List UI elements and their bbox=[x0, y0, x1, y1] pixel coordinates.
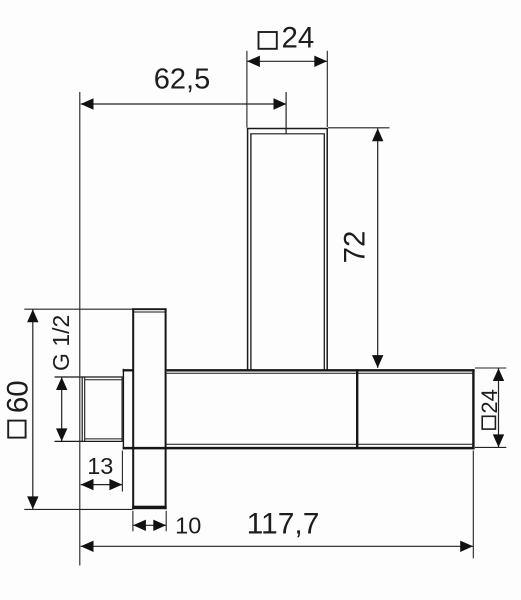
dimension 117,7: dimension line bbox=[81, 545, 473, 547]
dimension 72: dimension line bbox=[377, 128, 379, 368]
svg-text:13: 13 bbox=[87, 453, 113, 479]
dimension 10: dimension line bbox=[133, 524, 166, 526]
svg-text:117,7: 117,7 bbox=[247, 507, 320, 540]
dimension 117,7: right arrowhead bbox=[460, 541, 473, 552]
dimension sq60: extension lines bbox=[24, 309, 133, 509]
dimension sq60: dimension line bbox=[32, 309, 34, 509]
dimension sq24 right: square symbol (rotated) bbox=[482, 416, 495, 429]
svg-text:62,5: 62,5 bbox=[154, 64, 210, 96]
svg-text:60: 60 bbox=[2, 380, 35, 413]
dimension sq24 right: top arrowhead bbox=[493, 368, 504, 381]
dimension sq24 top: extension lines bbox=[247, 51, 327, 128]
svg-text:G 1/2: G 1/2 bbox=[48, 315, 74, 371]
dimension sq24 top: left arrowhead bbox=[247, 56, 260, 67]
dimension G 1/2: bottom arrowhead bbox=[56, 428, 67, 441]
svg-text:24: 24 bbox=[282, 22, 315, 55]
dimension sq24 right: dimension line bbox=[498, 368, 500, 447]
dimension 62,5: dimension line bbox=[81, 103, 287, 105]
dimension sq60: bottom arrowhead bbox=[27, 496, 38, 509]
dimension 13: right arrowhead bbox=[109, 479, 122, 490]
dimension 62,5: left arrowhead bbox=[81, 98, 94, 109]
riser pipe (vertical outlet tube) bbox=[247, 128, 328, 370]
dimension 13: right extension line bbox=[121, 451, 123, 492]
dimension G 1/2: dimension line bbox=[61, 377, 63, 441]
svg-text:24: 24 bbox=[477, 389, 502, 413]
dimension 62,5: right arrowhead bbox=[274, 98, 287, 109]
left datum extension line bbox=[79, 92, 81, 566]
valve body (horizontal tube) bbox=[123, 369, 475, 449]
dimension 72: bottom arrowhead bbox=[372, 355, 383, 368]
svg-text:10: 10 bbox=[175, 512, 201, 538]
dimension 10: left arrowhead bbox=[133, 520, 146, 531]
dimension sq24 right: bottom arrowhead bbox=[493, 434, 504, 447]
dimension sq60: square symbol (rotated) bbox=[8, 421, 25, 438]
dimension 72: top extension line bbox=[328, 127, 390, 129]
wall flange plate bbox=[132, 308, 166, 509]
dimension 13: dimension line bbox=[81, 484, 123, 486]
dimension sq24 top: square symbol bbox=[259, 32, 277, 49]
dimension 13: left arrowhead bbox=[81, 479, 94, 490]
dimension sq60: top arrowhead bbox=[27, 309, 38, 322]
dimension 72: top arrowhead bbox=[372, 128, 383, 141]
dimension 10: right arrowhead bbox=[153, 520, 166, 531]
body chamber divider line bbox=[356, 369, 358, 448]
dimension 117,7: left arrowhead bbox=[81, 541, 94, 552]
dimension 117,7: right extension line bbox=[472, 451, 474, 559]
dimension 10: extension lines bbox=[133, 511, 166, 532]
dimension G 1/2: top arrowhead bbox=[56, 377, 67, 390]
inlet collar between flange and nipple bbox=[123, 369, 134, 450]
svg-text:72: 72 bbox=[339, 231, 372, 264]
dimension sq24 top: dimension line bbox=[247, 60, 327, 62]
dimension sq24 right: extension lines bbox=[475, 368, 506, 447]
dimension sq24 top: right arrowhead bbox=[314, 56, 327, 67]
riser centre mark line bbox=[285, 92, 287, 134]
threaded nipple G 1/2 (with thread lines) bbox=[55, 376, 123, 442]
